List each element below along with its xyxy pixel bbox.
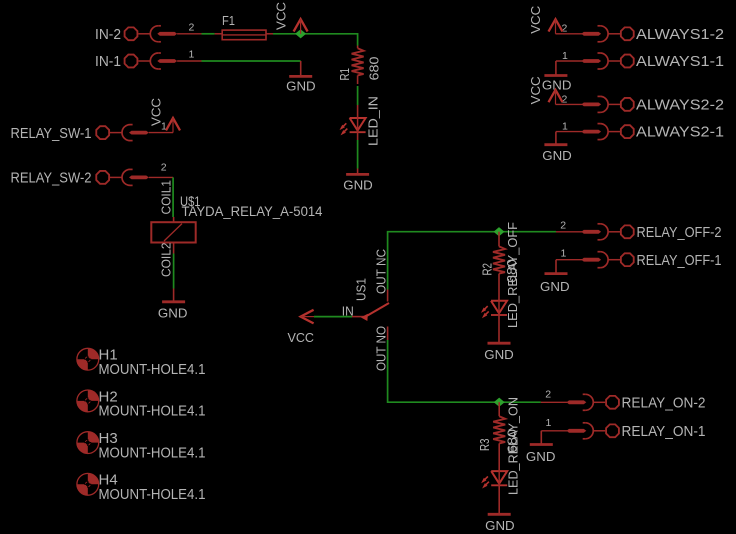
connector RELAY_SW-2 xyxy=(96,171,109,184)
svg-text:MOUNT-HOLE4.1: MOUNT-HOLE4.1 xyxy=(99,403,206,420)
svg-text:RELAY_SW-1: RELAY_SW-1 xyxy=(11,125,92,142)
svg-text:GND: GND xyxy=(485,518,515,533)
svg-text:680: 680 xyxy=(367,57,382,81)
connector ALWAYS1-1 xyxy=(556,60,582,62)
led LED_IN xyxy=(357,105,359,118)
connector ALWAYS2-2 xyxy=(556,103,583,105)
ground GND at RELAY_ON-1 xyxy=(540,431,542,445)
wire LED_IN to GND xyxy=(357,140,359,169)
svg-text:ALWAYS2-1: ALWAYS2-1 xyxy=(636,124,724,141)
svg-text:MOUNT-HOLE4.1: MOUNT-HOLE4.1 xyxy=(99,444,206,461)
svg-text:1: 1 xyxy=(562,50,568,62)
connector IN-2 xyxy=(125,27,138,40)
svg-text:VCC: VCC xyxy=(528,76,543,104)
svg-text:LED_IN: LED_IN xyxy=(366,96,381,146)
resistor R2 xyxy=(498,232,500,247)
svg-text:VCC: VCC xyxy=(273,2,288,30)
svg-text:MOUNT-HOLE4.1: MOUNT-HOLE4.1 xyxy=(99,486,206,503)
svg-text:TAYDA_RELAY_A-5014: TAYDA_RELAY_A-5014 xyxy=(182,204,323,219)
svg-text:RELAY_ON-2: RELAY_ON-2 xyxy=(622,395,706,412)
ground GND under LED_RELAY_ON xyxy=(498,484,500,514)
svg-text:VCC: VCC xyxy=(528,6,543,34)
svg-text:GND: GND xyxy=(484,347,514,362)
ground GND at ALWAYS1-1 xyxy=(555,61,557,76)
ground GND under relay coil xyxy=(173,289,175,302)
svg-text:F1: F1 xyxy=(222,13,235,28)
connector RELAY_ON-1 xyxy=(541,430,567,432)
power VCC at RELAY_SW-1 xyxy=(166,118,180,130)
svg-text:MOUNT-HOLE4.1: MOUNT-HOLE4.1 xyxy=(99,361,206,378)
mount hole H2 xyxy=(77,390,99,412)
svg-text:LED_RELAY_OFF: LED_RELAY_OFF xyxy=(505,222,520,328)
svg-text:GND: GND xyxy=(286,79,316,94)
svg-text:1: 1 xyxy=(189,49,195,61)
wire VCC to US1 IN xyxy=(314,316,352,318)
svg-text:2: 2 xyxy=(161,161,167,173)
svg-text:1: 1 xyxy=(561,248,567,260)
connector RELAY_OFF-1 xyxy=(556,259,582,261)
mount hole H1 xyxy=(77,348,99,370)
svg-text:RELAY_OFF-2: RELAY_OFF-2 xyxy=(637,224,722,241)
wire OUT NC net xyxy=(388,232,556,290)
svg-text:LED_RELAY_ON: LED_RELAY_ON xyxy=(506,397,521,495)
svg-text:GND: GND xyxy=(542,148,572,163)
junction VCC node xyxy=(295,29,306,38)
svg-text:1: 1 xyxy=(546,417,552,429)
wire RELAY_SW-2 to coil xyxy=(172,177,174,217)
power VCC at ALWAYS2-2 xyxy=(549,90,563,102)
svg-text:OUT NO: OUT NO xyxy=(374,326,389,371)
svg-text:VCC: VCC xyxy=(149,98,164,126)
svg-text:2: 2 xyxy=(562,93,568,105)
resistor R3 xyxy=(498,402,500,416)
svg-text:ALWAYS2-2: ALWAYS2-2 xyxy=(636,97,724,114)
resistor R1 xyxy=(357,46,359,49)
svg-text:R3: R3 xyxy=(477,439,492,452)
svg-text:US1: US1 xyxy=(354,278,369,301)
wire R1 to LED_IN xyxy=(357,86,359,105)
svg-text:COIL1: COIL1 xyxy=(159,180,174,215)
ground GND at IN-1 xyxy=(300,61,302,76)
svg-text:2: 2 xyxy=(560,219,566,231)
svg-text:ALWAYS1-1: ALWAYS1-1 xyxy=(636,53,724,70)
svg-text:VCC: VCC xyxy=(288,330,315,345)
power VCC at ALWAYS1-2 xyxy=(549,19,563,31)
led LED_RELAY_ON xyxy=(491,471,507,484)
connector ALWAYS2-1 xyxy=(556,131,582,133)
ground GND at ALWAYS2-1 xyxy=(555,132,557,145)
wire IN-2 to F1 xyxy=(202,33,215,35)
wire F1 to R1 xyxy=(273,34,358,46)
svg-text:2: 2 xyxy=(189,21,195,33)
wire OUT NO net xyxy=(388,340,541,402)
ground GND at RELAY_OFF-1 xyxy=(555,260,557,274)
svg-text:1: 1 xyxy=(562,121,568,133)
svg-text:IN-1: IN-1 xyxy=(95,53,121,70)
connector IN-1 xyxy=(125,55,138,68)
wire IN-1 to GND xyxy=(202,60,301,62)
svg-text:2: 2 xyxy=(562,23,568,35)
connector RELAY_SW-1 xyxy=(96,126,109,139)
power VCC at F1 xyxy=(294,19,308,31)
connector ALWAYS1-2 xyxy=(556,33,583,35)
svg-text:COIL2: COIL2 xyxy=(159,243,174,278)
svg-text:2: 2 xyxy=(545,388,551,400)
relay coil U$1 xyxy=(173,217,175,222)
svg-text:OUT NC: OUT NC xyxy=(374,249,389,294)
svg-text:RELAY_SW-2: RELAY_SW-2 xyxy=(11,170,92,187)
fuse F1 xyxy=(215,33,223,35)
node RELAY_OFF junction xyxy=(494,227,505,236)
connector RELAY_ON-2 xyxy=(541,401,567,403)
power VCC at switch input xyxy=(301,310,314,324)
svg-text:R1: R1 xyxy=(337,68,352,81)
svg-text:IN-2: IN-2 xyxy=(95,26,121,43)
svg-text:GND: GND xyxy=(526,449,556,464)
ground GND under LED_RELAY_OFF xyxy=(498,314,500,343)
node RELAY_ON junction xyxy=(494,398,505,407)
svg-text:GND: GND xyxy=(343,178,373,193)
svg-text:R2: R2 xyxy=(480,263,495,276)
wire coil to GND xyxy=(173,254,175,289)
svg-text:RELAY_ON-1: RELAY_ON-1 xyxy=(622,423,706,440)
svg-text:RELAY_OFF-1: RELAY_OFF-1 xyxy=(637,252,722,269)
svg-text:GND: GND xyxy=(540,279,570,294)
svg-text:IN: IN xyxy=(342,304,354,319)
mount hole H3 xyxy=(77,432,99,454)
svg-text:ALWAYS1-2: ALWAYS1-2 xyxy=(636,26,724,43)
led LED_RELAY_OFF xyxy=(491,301,507,314)
svg-text:GND: GND xyxy=(158,306,188,321)
ground GND under LED_IN xyxy=(357,169,359,175)
mount hole H4 xyxy=(77,473,99,495)
connector RELAY_OFF-2 xyxy=(556,231,582,233)
switch US1 xyxy=(352,316,365,318)
